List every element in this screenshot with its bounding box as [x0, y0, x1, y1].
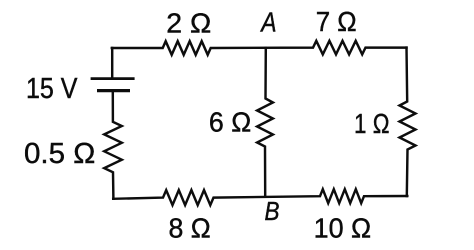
svg-text:6 Ω: 6 Ω	[209, 107, 251, 138]
svg-text:A: A	[260, 7, 277, 38]
svg-text:10 Ω: 10 Ω	[314, 213, 372, 244]
svg-text:B: B	[265, 196, 280, 226]
svg-text:8 Ω: 8 Ω	[169, 213, 211, 244]
svg-text:2 Ω: 2 Ω	[166, 7, 211, 38]
svg-text:1 Ω: 1 Ω	[354, 108, 390, 139]
svg-text:15 V: 15 V	[26, 73, 78, 105]
svg-text:7 Ω: 7 Ω	[316, 6, 357, 37]
svg-text:0.5 Ω: 0.5 Ω	[24, 138, 95, 170]
